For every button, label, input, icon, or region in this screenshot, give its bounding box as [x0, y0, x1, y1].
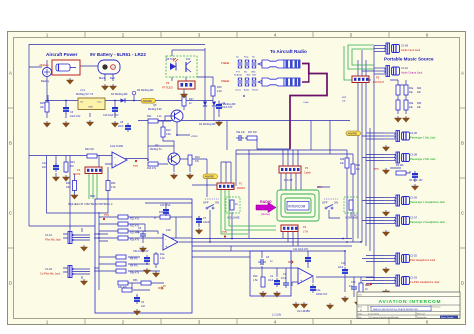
svg-text:7.0mm: 7.0mm — [221, 61, 230, 65]
svg-text:To Aircraft Radio: To Aircraft Radio — [270, 49, 307, 54]
svg-text:R2a: R2a — [409, 88, 414, 90]
svg-text:No Audio: No Audio — [234, 74, 243, 77]
svg-text:SMK-01, MK-46.2SP 4ch PLACE IN: SMK-01, MK-46.2SP 4ch PLACE INTERCOM — [373, 308, 418, 311]
svg-text:R12: R12 — [166, 129, 171, 132]
svg-text:Sheet of: Sheet of — [417, 312, 425, 315]
svg-text:R26: R26 — [66, 182, 71, 185]
svg-text:47pF: 47pF — [281, 278, 287, 280]
svg-text:R11: R11 — [147, 115, 152, 118]
svg-text:R9 47k: R9 47k — [130, 265, 138, 268]
svg-text:Pilot Mic Jack: Pilot Mic Jack — [45, 238, 62, 242]
svg-text:R10: R10 — [253, 275, 258, 278]
svg-text:I-C1: I-C1 — [80, 88, 85, 92]
svg-text:Mic: Mic — [244, 72, 247, 74]
svg-text:1M: 1M — [70, 165, 73, 168]
svg-text:CJ-10: CJ-10 — [401, 66, 408, 70]
svg-text:D2 MicReg MF: D2 MicReg MF — [199, 123, 216, 126]
svg-text:B: B — [461, 141, 464, 146]
svg-text:F22: F22 — [186, 58, 191, 61]
svg-text:DKD: DKD — [252, 75, 257, 77]
svg-text:TP9: TP9 — [104, 213, 109, 217]
svg-text:AWIRE: AWIRE — [143, 99, 152, 103]
svg-text:MicReg S1: MicReg S1 — [150, 148, 162, 151]
svg-text:22uF: 22uF — [118, 125, 124, 128]
svg-text:R1a: R1a — [160, 253, 165, 256]
svg-text:R25: R25 — [40, 102, 45, 105]
svg-text:CJ-09: CJ-09 — [401, 44, 408, 48]
svg-text:4uF: 4uF — [42, 166, 47, 169]
svg-text:C:\Program Files\Design\AVI.dd: C:\Program Files\Design\AVI.ddb — [368, 316, 399, 319]
svg-text:Steve Jacobs: Steve Jacobs — [441, 316, 453, 319]
svg-text:R21 47k: R21 47k — [130, 218, 140, 221]
svg-text:R19: R19 — [195, 156, 200, 159]
svg-text:Shield: Shield — [252, 90, 259, 92]
svg-text:C8 10uF 16V: C8 10uF 16V — [409, 180, 423, 182]
svg-text:GND: GND — [251, 72, 256, 74]
svg-text:CJ-05: CJ-05 — [410, 196, 417, 200]
svg-text:P1: P1 — [239, 182, 243, 186]
svg-text:Aircraft Power: Aircraft Power — [46, 52, 78, 57]
svg-text:CJ-03: CJ-03 — [410, 276, 417, 280]
svg-text:1.5k: 1.5k — [253, 279, 258, 282]
svg-text:Revision: Revision — [433, 307, 442, 309]
svg-text:R31: R31 — [356, 165, 361, 167]
svg-text:GND: GND — [88, 107, 93, 109]
svg-text:ON: ON — [334, 201, 338, 205]
svg-text:R8b: R8b — [133, 279, 138, 282]
svg-text:Passenger 2 Mic Jack: Passenger 2 Mic Jack — [410, 157, 436, 161]
svg-text:TP1: TP1 — [366, 284, 371, 287]
svg-text:R14 47k: R14 47k — [147, 167, 157, 170]
svg-text:1/2a TL082: 1/2a TL082 — [110, 144, 124, 148]
svg-text:A: A — [461, 71, 464, 76]
svg-text:1.4k: 1.4k — [160, 257, 165, 260]
svg-text:CT6: CT6 — [317, 186, 322, 189]
svg-text:P5: P5 — [376, 76, 380, 80]
svg-text:TP5: TP5 — [222, 230, 227, 234]
svg-text:1/2b: 1/2b — [166, 229, 171, 232]
svg-text:R3b: R3b — [417, 103, 422, 105]
svg-text:Passenger 1 Headphone Jack: Passenger 1 Headphone Jack — [410, 200, 445, 204]
svg-text:Cable: Cable — [303, 102, 309, 104]
svg-text:OFF: OFF — [322, 201, 328, 205]
svg-text:RADIO: RADIO — [237, 186, 245, 190]
svg-text:D4 MicReg MF: D4 MicReg MF — [111, 93, 128, 96]
svg-text:D: D — [9, 281, 12, 286]
svg-text:Audio: Audio — [244, 89, 250, 92]
svg-text:P6: P6 — [166, 81, 170, 85]
svg-text:R26: R26 — [217, 86, 222, 89]
svg-text:P3: P3 — [305, 166, 309, 170]
svg-text:R6 24k: R6 24k — [396, 164, 404, 167]
svg-text:C: C — [9, 211, 12, 216]
svg-text:C11 10uF 16V: C11 10uF 16V — [293, 248, 309, 251]
svg-text:R6b1: R6b1 — [90, 196, 96, 198]
svg-text:R2a 47k: R2a 47k — [130, 239, 140, 242]
svg-text:VOLUME: VOLUME — [227, 216, 240, 220]
svg-text:Co-Pilot Mic Jack: Co-Pilot Mic Jack — [40, 272, 61, 276]
svg-text:1uF: 1uF — [136, 231, 141, 234]
svg-text:TP6: TP6 — [133, 164, 138, 168]
svg-text:10uF 16V: 10uF 16V — [222, 106, 233, 109]
svg-text:4.6k: 4.6k — [111, 186, 116, 189]
svg-text:+Com: +Com — [191, 135, 197, 138]
svg-text:4.5mm: 4.5mm — [221, 79, 230, 83]
svg-text:C6b 10uF 16V: C6b 10uF 16V — [133, 250, 149, 253]
svg-text:Cable: Cable — [304, 171, 311, 175]
svg-text:AWIRE: AWIRE — [348, 132, 357, 136]
svg-text:10uF: 10uF — [338, 267, 344, 269]
svg-text:L1 11.8k: L1 11.8k — [272, 314, 282, 317]
svg-text:Battery: Battery — [41, 79, 50, 83]
svg-text:C: C — [461, 211, 464, 216]
svg-text:A: A — [9, 71, 12, 76]
svg-text:LYN: LYN — [303, 230, 308, 234]
svg-text:RADIO: RADIO — [260, 200, 272, 204]
svg-text:1.1k: 1.1k — [157, 115, 162, 118]
svg-text:R30: R30 — [340, 159, 345, 161]
svg-text:R8 47k: R8 47k — [130, 258, 138, 261]
svg-text:D: D — [461, 281, 464, 286]
svg-text:PTT/LED: PTT/LED — [162, 86, 173, 90]
svg-text:U2 LM386: U2 LM386 — [297, 309, 310, 313]
svg-text:Audio Input Jack: Audio Input Jack — [401, 48, 421, 52]
svg-text:Comm: Comm — [235, 90, 241, 92]
svg-text:C13 47uF: C13 47uF — [160, 204, 171, 207]
svg-text:+Battery: +Battery — [39, 63, 49, 67]
svg-text:C10 10uF 16V: C10 10uF 16V — [103, 114, 119, 117]
svg-text:Black: Black — [99, 77, 106, 80]
svg-text:2.4K: 2.4K — [217, 90, 222, 93]
svg-text:AWIRE: AWIRE — [205, 175, 214, 179]
svg-text:10uF: 10uF — [268, 280, 274, 282]
svg-text:Co-Pilot Headphone Jack: Co-Pilot Headphone Jack — [410, 280, 440, 284]
svg-text:9V: 9V — [163, 286, 166, 288]
svg-text:CJ-04: CJ-04 — [45, 267, 52, 271]
svg-text:B: B — [9, 141, 12, 146]
svg-text:Portable Music Source: Portable Music Source — [384, 57, 434, 62]
svg-text:AVIATION INTERCOM: AVIATION INTERCOM — [379, 299, 442, 305]
svg-text:MicReg 9V 7.8: MicReg 9V 7.8 — [76, 92, 94, 96]
svg-text:R8c 47k: R8c 47k — [118, 286, 128, 289]
svg-text:MUTE: MUTE — [73, 172, 81, 176]
svg-text:4-Oct-2012: 4-Oct-2012 — [368, 312, 380, 315]
svg-text:R8a 47k: R8a 47k — [130, 272, 140, 275]
svg-text:GND: GND — [246, 75, 251, 77]
svg-text:1uF: 1uF — [141, 305, 146, 308]
svg-text:D6 TAP: D6 TAP — [166, 58, 175, 61]
svg-text:Red: Red — [110, 77, 115, 80]
svg-text:R27 240: R27 240 — [248, 132, 257, 134]
svg-text:TP5: TP5 — [374, 168, 379, 171]
svg-text:Vout: Vout — [97, 101, 102, 104]
svg-text:3.6k: 3.6k — [166, 133, 171, 136]
svg-text:Passenger 1 Mic Jack: Passenger 1 Mic Jack — [410, 136, 436, 140]
svg-text:CJ-08: CJ-08 — [410, 153, 417, 157]
svg-text:CJ-07: CJ-07 — [410, 216, 417, 220]
svg-text:10uF 16V: 10uF 16V — [70, 115, 81, 118]
svg-text:PILOT: PILOT — [284, 178, 293, 182]
svg-text:Audio Output Jack: Audio Output Jack — [401, 71, 423, 75]
svg-text:C1a: C1a — [316, 289, 321, 292]
svg-text:MicReg 5.6K: MicReg 5.6K — [148, 108, 162, 111]
svg-text:100uF: 100uF — [203, 221, 210, 224]
svg-text:100uF 16V: 100uF 16V — [316, 294, 328, 296]
svg-text:R18 47k: R18 47k — [159, 211, 169, 214]
svg-text:9V Battery - 6LR61 - LR22: 9V Battery - 6LR61 - LR22 — [90, 52, 146, 57]
svg-text:Passenger 2 Headphone Jack: Passenger 2 Headphone Jack — [410, 220, 445, 224]
svg-text:C5a 1uF: C5a 1uF — [236, 132, 245, 134]
svg-text:P4: P4 — [77, 168, 81, 172]
svg-text:C15: C15 — [351, 281, 356, 284]
svg-text:R24: R24 — [70, 161, 75, 164]
svg-text:SQUELCH / MUTE CONTROL 1: SQUELCH / MUTE CONTROL 1 — [68, 202, 113, 206]
svg-text:BAT/OUT: BAT/OUT — [373, 80, 384, 84]
svg-text:R17: R17 — [189, 98, 194, 101]
svg-text:CJ-01: CJ-01 — [45, 233, 52, 237]
svg-text:Drawn By:: Drawn By: — [417, 316, 427, 319]
svg-text:OFF: OFF — [203, 201, 209, 205]
svg-text:R6b: R6b — [111, 182, 116, 185]
svg-text:CJ-02: CJ-02 — [410, 254, 417, 258]
svg-text:INTERCOM: INTERCOM — [288, 205, 305, 209]
svg-text:C14: C14 — [341, 262, 346, 265]
svg-text:(demo): (demo) — [261, 212, 270, 216]
svg-text:ON: ON — [215, 201, 219, 205]
svg-text:C12: C12 — [42, 162, 47, 165]
svg-text:R3a: R3a — [409, 103, 414, 105]
svg-text:D6 MicReg MF: D6 MicReg MF — [137, 89, 154, 92]
svg-text:R20 1M: R20 1M — [85, 148, 94, 151]
svg-text:P2: P2 — [303, 225, 307, 229]
svg-text:D5 MicReg MF: D5 MicReg MF — [219, 103, 236, 106]
svg-text:Pilot Headphone Jack: Pilot Headphone Jack — [410, 258, 436, 262]
svg-text:CJ-06: CJ-06 — [410, 131, 417, 135]
svg-text:R2b: R2b — [417, 88, 422, 90]
